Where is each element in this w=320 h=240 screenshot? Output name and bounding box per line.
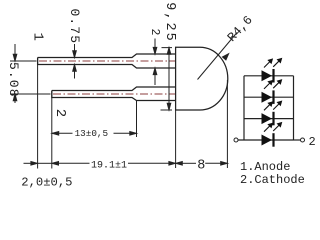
extension line from body left edge [175, 110, 177, 168]
LED D4 cathode bar [272, 133, 274, 147]
LED D3 cathode bar [272, 112, 274, 126]
wire: rung 4 to terminals [238, 139, 294, 141]
svg-text:13±0,5: 13±0,5 [75, 128, 108, 139]
dimension 2 lines and arrows (wide lead section) [153, 39, 157, 86]
svg-text:0.75: 0.75 [67, 9, 82, 45]
extension bars for 5.08 [10, 61, 51, 94]
wire: rung 2 [244, 96, 294, 98]
extension line from lead 2 tip [51, 91, 53, 169]
dimension 5.08 lines and arrows [13, 44, 17, 103]
svg-text:2,0±0,5: 2,0±0,5 [21, 176, 72, 190]
svg-text:9,25: 9,25 [162, 2, 177, 42]
svg-text:2: 2 [148, 29, 161, 36]
lead pin 1 (anode, top) outline [38, 54, 176, 68]
LED D3 light arrows [264, 101, 282, 110]
wire: left rail (anode bus) [243, 76, 245, 140]
svg-text:2: 2 [52, 109, 68, 117]
svg-text:19.1±1: 19.1±1 [91, 160, 127, 171]
LED D1 cathode bar [272, 69, 274, 83]
svg-text:2: 2 [309, 135, 316, 149]
centerline of lead 1 [39, 60, 175, 62]
svg-text:8: 8 [197, 159, 205, 174]
svg-text:1: 1 [30, 33, 46, 41]
extension line at lead 2 step [136, 101, 138, 138]
LED D2 triangle [262, 92, 273, 103]
extension line from lead 1 tip [37, 58, 39, 169]
terminal 1 (anode) [234, 138, 238, 142]
wire: right rail (cathode bus) [293, 76, 295, 140]
LED D2 cathode bar [272, 90, 274, 104]
svg-text:5.08: 5.08 [6, 62, 21, 98]
dimension 9,25 line and arrows [167, 48, 171, 110]
LED epoxy body with dome (side view) [176, 47, 228, 110]
dimension 0.75 lines and arrows [73, 44, 77, 79]
wire: rung 3 [244, 118, 294, 120]
wire: right terminal stub [294, 139, 301, 141]
LED D2 light arrows [264, 80, 282, 89]
terminal 2 (cathode) [301, 138, 305, 142]
LED D4 light arrows [264, 123, 282, 132]
dimension 13±0,5 line and arrows [52, 132, 137, 136]
centerline of lead 2 [53, 93, 175, 95]
extension line from dome apex [226, 80, 228, 168]
LED D1 triangle [262, 70, 273, 81]
svg-text:R4,6: R4,6 [225, 13, 256, 45]
dimension 8 line and arrows [176, 162, 228, 166]
svg-text:1.Anode: 1.Anode [240, 160, 290, 174]
lead pin 2 (cathode, bottom) outline [52, 87, 176, 101]
wire: rung 1 [244, 75, 294, 77]
LED D3 triangle [262, 113, 273, 124]
dimension 2,0±0,5 and 19.1±1 lines and arrows [24, 162, 176, 166]
extension bars for 9,25 [161, 48, 173, 110]
svg-text:2.Cathode: 2.Cathode [240, 173, 305, 187]
LED D4 triangle [262, 135, 273, 146]
LED D1 light arrows [264, 59, 282, 68]
radius leader line with arrow on dome [198, 33, 238, 80]
